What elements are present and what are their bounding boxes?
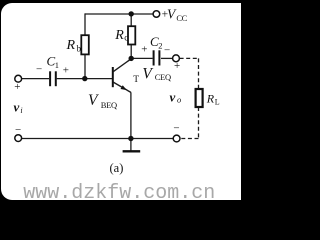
wire dashed output bottom horizontal: [180, 138, 199, 140]
svg-text:−: −: [36, 64, 42, 76]
svg-text:i: i: [20, 106, 22, 115]
resistor R_c: [128, 26, 135, 44]
wire collector row to C2: [131, 57, 152, 59]
svg-text:BEQ: BEQ: [101, 100, 117, 110]
capacitor C1 plates: [50, 71, 56, 86]
svg-text:c: c: [124, 33, 128, 43]
svg-text:+: +: [174, 60, 180, 72]
wire C2 to output terminal: [161, 57, 172, 59]
svg-text:R: R: [66, 38, 76, 53]
svg-text:1: 1: [55, 60, 59, 70]
terminal output bottom: [173, 135, 180, 142]
svg-text:R: R: [114, 28, 124, 43]
terminal input bottom: [15, 135, 22, 142]
svg-text:b: b: [77, 44, 82, 54]
svg-text:2: 2: [158, 40, 162, 50]
svg-text:CC: CC: [176, 13, 187, 23]
svg-text:CEQ: CEQ: [155, 72, 171, 82]
transistor T base bar: [112, 67, 114, 87]
svg-text:T: T: [133, 75, 139, 85]
svg-text:L: L: [215, 98, 220, 107]
svg-text:−: −: [15, 124, 21, 136]
terminal +VCC: [153, 11, 160, 18]
transistor T emitter line: [113, 82, 131, 92]
terminal output top: [173, 55, 180, 62]
wire emitter vertical: [130, 92, 132, 138]
wire dashed output top horizontal: [180, 57, 199, 59]
svg-text:(a): (a): [110, 161, 124, 175]
resistor R_b: [81, 35, 89, 54]
wire Rb top vertical: [84, 13, 86, 35]
svg-text:R: R: [206, 91, 215, 105]
wire dashed RL upper vertical: [198, 58, 200, 89]
wire bottom bus: [21, 138, 173, 140]
svg-text:+: +: [63, 65, 69, 77]
transistor T emitter arrow: [121, 85, 127, 90]
ground stub: [130, 139, 132, 151]
transistor T collector line: [113, 59, 131, 72]
wire input to C1: [21, 78, 49, 80]
svg-text:o: o: [177, 95, 181, 105]
wire dashed RL lower vertical: [198, 107, 200, 139]
svg-text:−: −: [164, 44, 170, 56]
wire Rb bottom vertical: [84, 54, 86, 78]
node dot collector junction: [129, 56, 134, 61]
svg-text:V: V: [88, 92, 99, 109]
resistor R_L (load, dashed branch): [196, 89, 203, 107]
terminal input top: [15, 75, 22, 82]
svg-text:+: +: [141, 44, 147, 56]
ground bar: [123, 150, 141, 152]
node dot emitter/ground junction: [128, 136, 133, 141]
svg-text:v: v: [170, 89, 176, 104]
node dot base junction: [82, 76, 87, 81]
wire Rc bottom vertical: [130, 45, 132, 59]
svg-text:v: v: [14, 100, 20, 115]
wire C1 to base: [57, 78, 112, 80]
wire top bus VCC rail: [85, 13, 153, 15]
svg-text:www.dzkfw.com.cn: www.dzkfw.com.cn: [23, 182, 215, 205]
svg-text:V: V: [142, 66, 153, 83]
wire Rc top vertical: [130, 14, 132, 26]
svg-text:+: +: [14, 81, 20, 93]
svg-text:−: −: [173, 122, 179, 134]
capacitor C2 plates: [154, 50, 160, 65]
node dot VCC/Rc junction: [129, 11, 134, 16]
